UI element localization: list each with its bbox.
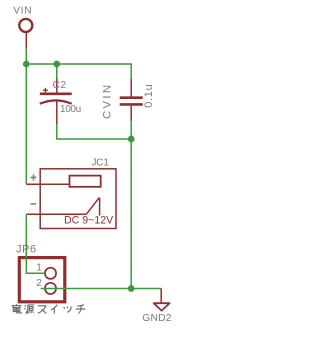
svg-text:100u: 100u (60, 104, 81, 115)
wire JC1 - down to JP6 pin 1 (26, 215, 45, 274)
glyph ス (38, 306, 47, 314)
glyph チ (76, 305, 85, 314)
capacitor CVIN (120, 79, 143, 121)
glyph 源 (24, 305, 34, 314)
svg-text:DC 9~12V: DC 9~12V (64, 215, 114, 227)
wire CVIN bottom / right rail down (130, 121, 132, 289)
svg-text:C2: C2 (53, 80, 67, 91)
glyph ッ (64, 306, 72, 312)
svg-text:1: 1 (36, 263, 42, 274)
connector pin VIN (19, 19, 32, 49)
wire VIN down to rail (25, 49, 27, 64)
svg-text:0.1u: 0.1u (143, 84, 155, 108)
wire VIN rail down to JC1 + (25, 64, 27, 184)
wire top rail (26, 64, 131, 79)
svg-text:VIN: VIN (13, 6, 32, 17)
junction dot C2 branch (53, 61, 60, 68)
capacitor C2 (40, 79, 72, 124)
svg-text:GND2: GND2 (142, 313, 171, 324)
svg-text:2: 2 (36, 278, 42, 289)
junction dot at VIN rail (23, 61, 30, 68)
connector JC1 (DC jack) (26, 169, 116, 229)
junction dot C2/CVIN gnd (128, 136, 135, 143)
JC1 pin mark + (31, 174, 37, 180)
wire C2 bottom to junction (57, 124, 131, 139)
glyph イ (51, 305, 57, 314)
svg-text:JC1: JC1 (92, 157, 110, 168)
connector JP6 (19, 258, 65, 302)
label 電源スイッチ (hand-drawn glyphs) (12, 304, 85, 314)
ground GND2 (154, 289, 170, 311)
junction dot gnd rail (128, 285, 135, 292)
glyph 電 (12, 304, 22, 313)
wire JP6 pin 2 to ground rail (41, 288, 162, 290)
JC1 pin mark - (31, 203, 37, 205)
svg-text:CVIN: CVIN (101, 83, 113, 119)
wire C2 top branch (56, 64, 58, 79)
